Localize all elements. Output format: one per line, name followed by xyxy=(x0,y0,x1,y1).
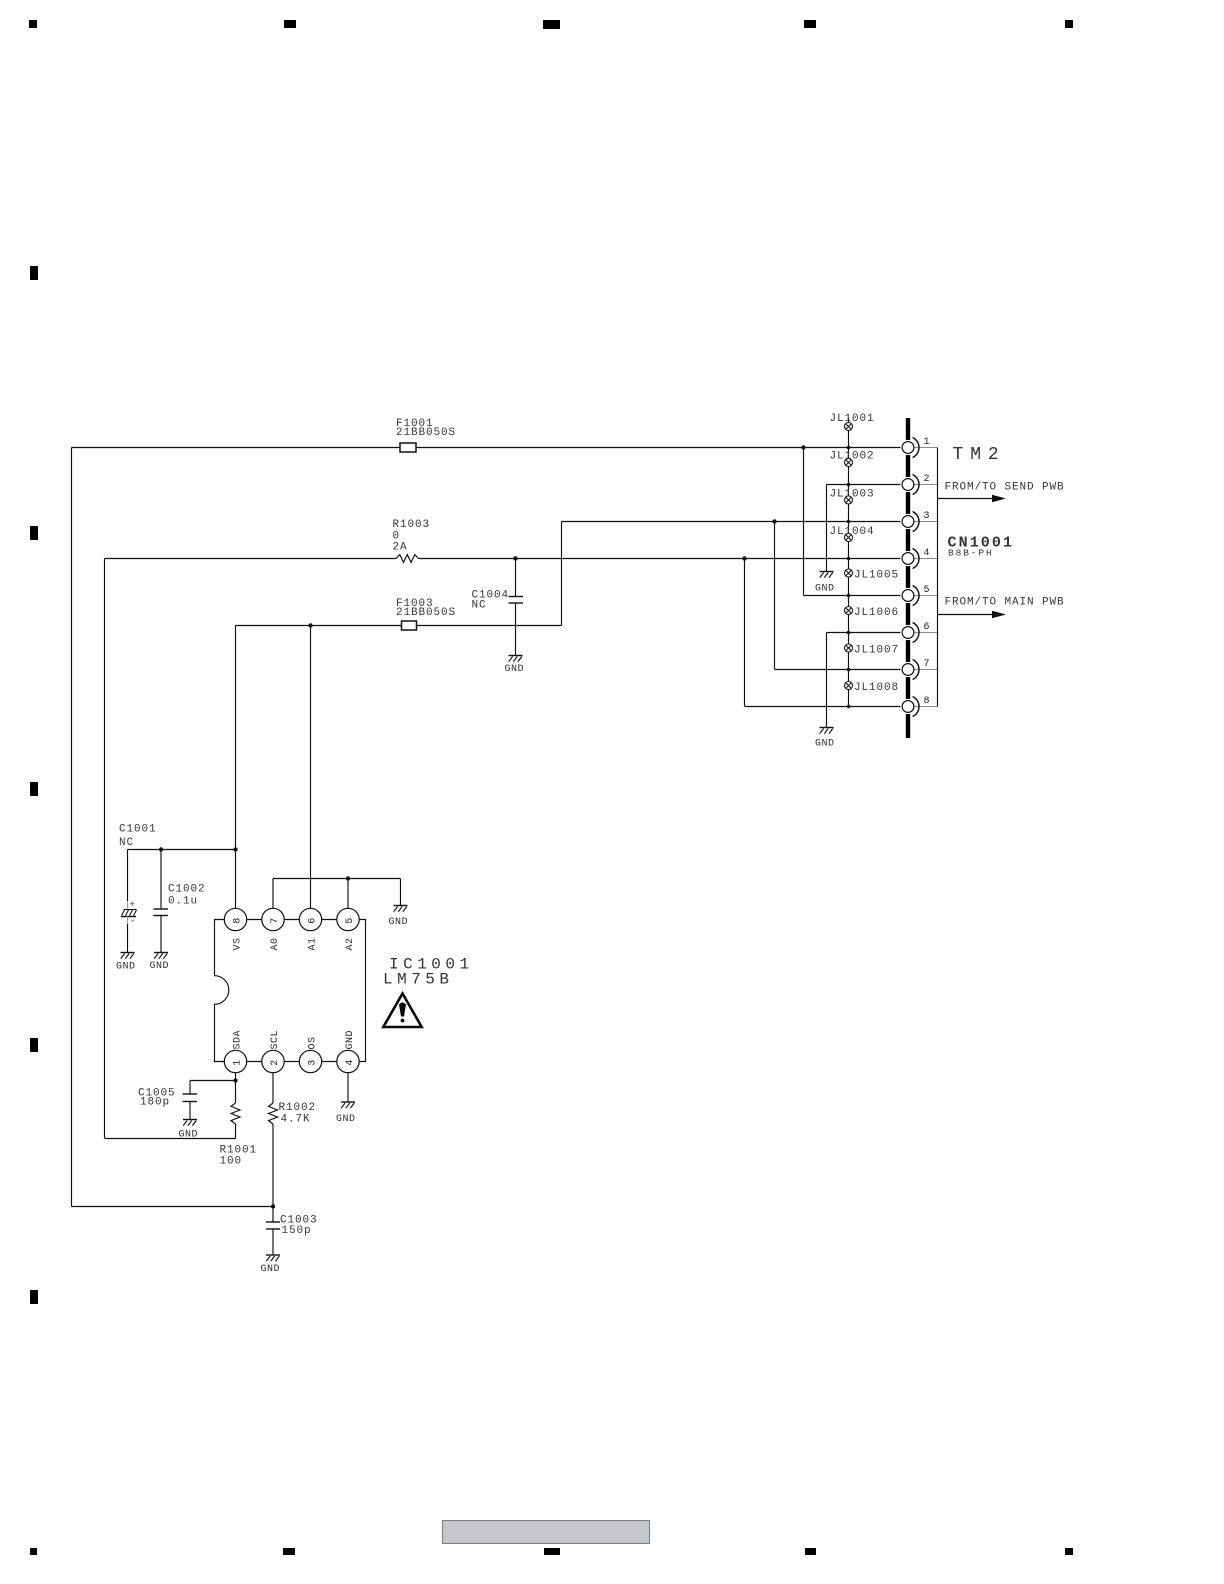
svg-text:7: 7 xyxy=(270,918,281,924)
registration mark top 3 xyxy=(543,20,560,29)
wire down to A-net ground xyxy=(400,879,402,906)
svg-text:21BB050S: 21BB050S xyxy=(396,427,456,439)
svg-text:4.7K: 4.7K xyxy=(281,1114,311,1126)
svg-text:JL1007: JL1007 xyxy=(854,645,899,657)
svg-text:R1003: R1003 xyxy=(393,519,431,531)
ground symbol under C1002 xyxy=(154,952,168,954)
wire IC pin4 to ground xyxy=(347,1073,349,1102)
wire A2 riser xyxy=(347,879,349,910)
wire CN1001 pin2 horizontal xyxy=(827,484,903,486)
svg-text:JL1002: JL1002 xyxy=(830,451,875,463)
arrow FROM/TO SEND PWB xyxy=(938,495,1007,503)
svg-text:TM2: TM2 xyxy=(953,445,1006,465)
svg-text:GND: GND xyxy=(389,917,409,928)
svg-text:JL1008: JL1008 xyxy=(854,682,899,694)
wire CN1001 pin7 horizontal xyxy=(775,669,903,671)
registration mark top 2 xyxy=(284,20,296,28)
svg-text:8: 8 xyxy=(924,696,930,707)
node junction SDA x C1005 xyxy=(233,1078,237,1082)
svg-text:GND: GND xyxy=(179,1130,199,1141)
svg-text:4: 4 xyxy=(924,548,930,559)
resistor R1001 vertical xyxy=(231,1103,240,1124)
svg-text:+: + xyxy=(130,900,135,910)
capacitor C1004 xyxy=(509,559,524,656)
fuse F1003 xyxy=(402,621,417,630)
node junction A2 riser xyxy=(346,876,350,880)
svg-text:8: 8 xyxy=(233,918,244,924)
svg-text:JL1003: JL1003 xyxy=(830,489,875,501)
svg-text:FROM/TO MAIN PWB: FROM/TO MAIN PWB xyxy=(945,597,1065,609)
wire vertical pin2 to ground xyxy=(826,485,828,572)
svg-text:C1002: C1002 xyxy=(168,884,206,896)
registration mark left 1 xyxy=(30,266,38,280)
wire jumper column vertical xyxy=(848,418,850,707)
registration mark left 3 xyxy=(30,782,38,796)
wire R1003 net horizontal to CN1001 pin4 xyxy=(105,558,397,560)
svg-text:2: 2 xyxy=(270,1060,281,1066)
svg-text:GND: GND xyxy=(815,584,835,595)
title placeholder box xyxy=(443,1521,650,1544)
jumper JL1003 xyxy=(845,496,853,504)
wire C1001 C1002 horizontal VS net xyxy=(128,849,236,851)
svg-text:JL1006: JL1006 xyxy=(854,607,899,619)
registration mark bottom 5 xyxy=(1065,1548,1073,1555)
resistor R1003 xyxy=(396,555,419,563)
ground symbol under C1003 xyxy=(266,1254,280,1256)
wire gray stubs pins to right rail xyxy=(914,448,938,707)
warning triangle symbol xyxy=(383,994,421,1028)
registration mark top 5 xyxy=(1065,20,1073,28)
svg-text:2A: 2A xyxy=(393,542,408,554)
svg-text:GND: GND xyxy=(150,961,170,972)
svg-text:FROM/TO SEND PWB: FROM/TO SEND PWB xyxy=(945,482,1065,494)
wire left vertical from F1001 net down xyxy=(71,448,73,1207)
svg-text:6: 6 xyxy=(308,918,319,924)
ground symbol under C1001 xyxy=(121,952,135,954)
capacitor C1002 xyxy=(154,850,169,953)
IC1001 pin circles top 8 7 6 5 xyxy=(224,908,359,930)
svg-text:-: - xyxy=(130,917,135,927)
op-amp IC1001 body outline with notch xyxy=(215,920,366,1062)
wire CN1001 pin6 horizontal xyxy=(827,632,903,634)
registration mark bottom 1 xyxy=(30,1548,37,1555)
arrow FROM/TO MAIN PWB xyxy=(938,611,1007,619)
registration mark bottom 2 xyxy=(283,1548,295,1555)
registration mark bottom 3 xyxy=(544,1548,560,1555)
svg-text:180p: 180p xyxy=(140,1097,170,1109)
wire CN1001 pin8 horizontal xyxy=(745,706,903,708)
wire F1003 net horizontal xyxy=(236,625,562,627)
node junction C1004 on R1003 net xyxy=(513,556,517,560)
svg-text:SCL: SCL xyxy=(270,1030,281,1050)
wire bottom horizontal SDA net xyxy=(105,1138,236,1140)
node junction C1002 branch xyxy=(159,847,163,851)
jumper JL1005 xyxy=(845,569,853,577)
svg-text:GND: GND xyxy=(261,1264,281,1275)
connector pin circles 1-8 xyxy=(902,442,914,713)
svg-text:SDA: SDA xyxy=(233,1030,244,1050)
svg-text:C1001: C1001 xyxy=(119,824,157,836)
svg-text:GND: GND xyxy=(116,962,136,973)
node junction pin3 line x pin7 riser xyxy=(772,519,776,523)
wire vertical pin3 to F1003 net xyxy=(561,522,563,626)
ground symbol pin6 GND xyxy=(820,727,834,729)
svg-text:100: 100 xyxy=(220,1156,243,1168)
jumper JL1006 xyxy=(845,607,853,615)
svg-text:VS: VS xyxy=(233,937,244,950)
connector TM2 body bar xyxy=(906,418,910,738)
svg-text:NC: NC xyxy=(119,837,134,849)
wire C1005 branch horizontal xyxy=(190,1080,236,1082)
connector pin arcs xyxy=(913,438,919,717)
wire vertical R1003 net to pin8 xyxy=(744,559,746,707)
registration mark bottom 4 xyxy=(805,1548,816,1555)
wire SDA below R1001 xyxy=(235,1124,237,1139)
svg-text:A0: A0 xyxy=(270,937,281,950)
wire SCL below R1002 xyxy=(272,1124,274,1207)
svg-text:7: 7 xyxy=(924,659,930,670)
node junction A1 riser on F1003 net xyxy=(308,623,312,627)
node junction pin1 line x pin5 riser xyxy=(801,445,805,449)
svg-text:3: 3 xyxy=(308,1060,319,1066)
wire vertical A1 riser to F1003 net xyxy=(310,626,312,910)
svg-text:GND: GND xyxy=(505,664,525,675)
wire bottom horizontal SCL net xyxy=(72,1206,274,1208)
svg-text:5: 5 xyxy=(924,585,930,596)
svg-text:0.1u: 0.1u xyxy=(168,896,198,908)
capacitor C1003 xyxy=(266,1207,280,1256)
wire F1001 net horizontal to CN1001 pin1 xyxy=(72,447,903,449)
ground symbol A-net GND xyxy=(394,905,408,907)
svg-text:B8B-PH: B8B-PH xyxy=(948,548,994,559)
svg-text:1: 1 xyxy=(233,1060,244,1066)
svg-text:1: 1 xyxy=(924,437,930,448)
registration mark left 2 xyxy=(30,526,38,540)
svg-text:2: 2 xyxy=(924,474,930,485)
wire left vertical 2 from R1003 net down xyxy=(104,559,106,1139)
wire vertical F1003 net to IC1001 pin8 VS xyxy=(235,626,237,910)
ground symbol pin2 GND xyxy=(820,571,834,573)
node junction VS riser xyxy=(233,847,237,851)
fuse F1001 xyxy=(400,443,416,452)
svg-text:4: 4 xyxy=(345,1060,356,1066)
svg-text:OS: OS xyxy=(308,1036,319,1049)
registration mark left 5 xyxy=(30,1290,38,1304)
svg-text:A1: A1 xyxy=(308,937,319,950)
svg-text:JL1001: JL1001 xyxy=(830,413,875,425)
ground symbol under C1004 xyxy=(509,655,523,657)
svg-text:GND: GND xyxy=(336,1114,356,1125)
registration mark top 1 xyxy=(29,20,37,28)
node junctions jumper column on pin lines xyxy=(847,446,851,709)
connector pin halos xyxy=(900,440,915,714)
wire right rail vertical xyxy=(937,448,939,707)
jumper JL1001 xyxy=(845,423,853,431)
ground symbol under C1005 xyxy=(183,1119,197,1121)
wire vertical pin6 to ground xyxy=(826,633,828,728)
resistor R1002 vertical xyxy=(269,1103,278,1124)
svg-text:NC: NC xyxy=(472,600,487,612)
registration mark left 4 xyxy=(30,1038,38,1052)
wire A0 riser xyxy=(272,879,274,910)
svg-text:R1002: R1002 xyxy=(279,1102,317,1114)
IC1001 pin circles bottom 1 2 3 4 xyxy=(224,1050,359,1072)
wire CN1001 pin3 horizontal xyxy=(562,521,903,523)
svg-text:150p: 150p xyxy=(282,1225,312,1237)
svg-text:JL1005: JL1005 xyxy=(854,570,899,582)
capacitor C1001 polarized NC xyxy=(121,850,137,953)
capacitor C1005 xyxy=(183,1081,198,1120)
jumper JL1008 xyxy=(845,682,853,690)
svg-text:GND: GND xyxy=(815,739,835,750)
registration mark top 4 xyxy=(804,20,816,28)
node junction SCL x C1003 xyxy=(271,1204,275,1208)
wire vertical pin1 net to pin5 xyxy=(803,448,805,596)
jumper JL1004 xyxy=(845,534,853,542)
ground symbol IC pin4 GND xyxy=(341,1101,355,1103)
svg-text:LM75B: LM75B xyxy=(383,971,454,989)
svg-text:GND: GND xyxy=(345,1030,356,1050)
svg-text:3: 3 xyxy=(924,511,930,522)
svg-text:A2: A2 xyxy=(345,937,356,950)
wire CN1001 pin5 horizontal xyxy=(804,595,903,597)
svg-text:JL1004: JL1004 xyxy=(830,526,875,538)
jumper JL1007 xyxy=(845,644,853,652)
wire SCL pin2 stub xyxy=(272,1073,274,1103)
svg-text:6: 6 xyxy=(924,622,930,633)
svg-text:5: 5 xyxy=(345,918,356,924)
svg-text:21BB050S: 21BB050S xyxy=(396,607,456,619)
wire SDA pin1 stub xyxy=(235,1073,237,1103)
node junction R1003 net x pin8 riser xyxy=(742,556,746,560)
jumper JL1002 xyxy=(845,459,853,467)
wire vertical pin3 net to pin7 xyxy=(774,522,776,670)
wire A0 A2 horizontal to ground xyxy=(273,878,401,880)
